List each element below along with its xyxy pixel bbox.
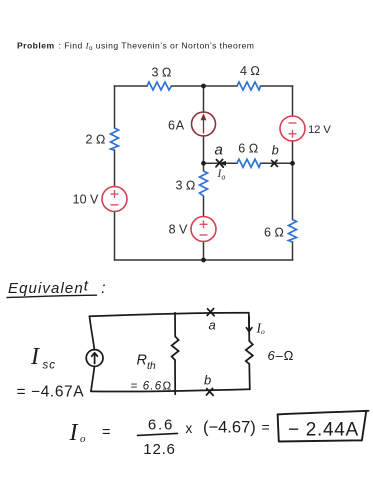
voltage source 10V plus [111, 190, 119, 205]
svg-text:2 Ω: 2 Ω [85, 133, 105, 147]
handwritten x mark at node a hand circuit [207, 309, 214, 316]
wire: bottom rail [115, 259, 293, 261]
wire: middle horizontal right of 6ohm [261, 162, 293, 164]
hand arrow Io on right branch [246, 317, 251, 332]
svg-text:8 V: 8 V [169, 223, 188, 237]
junction dot bottom middle node [201, 258, 206, 263]
voltage source 10V minus [111, 204, 119, 206]
wire: middle horizontal left of 6ohm [204, 162, 238, 164]
wire: hand circuit left branch lower [91, 366, 94, 391]
wire: middle branch between 6A and node a [203, 136, 205, 171]
svg-text:− 2.44A: − 2.44A [288, 420, 359, 441]
voltage source 12V plus [289, 133, 297, 135]
wire: top-middle segment [172, 85, 238, 87]
junction dot node a [201, 161, 206, 166]
voltage source 8V minus [200, 234, 208, 236]
svg-text:= 6.6Ω: = 6.6Ω [131, 381, 173, 393]
voltage source 12V minus [289, 123, 297, 138]
svg-text:a: a [209, 318, 216, 333]
hand resistor Rth zigzag [172, 337, 179, 361]
svg-text:=: = [102, 425, 110, 441]
wire: hand circuit middle branch lower [174, 360, 176, 394]
wire: hand circuit right branch lower [248, 364, 251, 389]
wire: middle branch between 3ohm and 8V [203, 196, 205, 217]
voltage source 12V circle [280, 116, 305, 141]
wire: top-right segment [261, 85, 293, 87]
wire: hand circuit middle branch upper [174, 313, 176, 337]
svg-text:12.6: 12.6 [143, 441, 175, 458]
current source 6A circle [192, 112, 216, 136]
resistor 6ohm middle horizontal zigzag [237, 159, 261, 167]
wire: top-left segment [115, 85, 148, 87]
svg-text:10 V: 10 V [73, 193, 99, 207]
svg-text:=: = [262, 419, 270, 435]
hand current source Isc arrow [92, 353, 98, 364]
wire: right branch 12V to node b [292, 141, 294, 220]
resistor 3ohm top-left zigzag [147, 82, 172, 90]
wire: left branch middle [114, 150, 116, 187]
svg-text:6–Ω: 6–Ω [268, 348, 295, 363]
wire: hand circuit bottom rail [91, 389, 250, 391]
svg-text:12 V: 12 V [308, 124, 331, 136]
svg-text:= −4.67A: = −4.67A [17, 384, 85, 401]
handwritten answer box [278, 411, 369, 442]
handwritten x mark at node a printed circuit [216, 159, 223, 167]
svg-text:b: b [204, 373, 211, 388]
svg-text:3 Ω: 3 Ω [175, 179, 195, 193]
wire: left branch upper [114, 86, 116, 128]
resistor 2ohm left zigzag [111, 128, 119, 151]
wire: hand circuit top rail [90, 313, 249, 317]
junction dot node b right [290, 161, 295, 166]
svg-text:6 Ω: 6 Ω [264, 225, 284, 239]
wire: hand circuit right branch upper [248, 313, 251, 341]
svg-text:6 Ω: 6 Ω [238, 142, 258, 156]
wire: right branch below 6ohm [292, 242, 294, 260]
svg-text:3 Ω: 3 Ω [151, 66, 171, 80]
resistor 4ohm top-right zigzag [237, 82, 261, 90]
svg-text:6.6: 6.6 [148, 417, 174, 434]
voltage source 8V plus [200, 220, 208, 235]
svg-text:4 Ω: 4 Ω [240, 64, 260, 78]
wire: middle branch below 8V [203, 242, 205, 261]
wire: hand circuit left branch upper [90, 316, 95, 350]
voltage source 10V circle [102, 187, 127, 212]
handwritten fraction bar [138, 433, 178, 435]
svg-text:b: b [272, 144, 279, 158]
svg-text:6A: 6A [168, 118, 185, 132]
wire: right branch above 12V [292, 86, 294, 116]
underline for Equivalent [7, 295, 97, 297]
wire: middle branch above 6A source [203, 86, 205, 112]
resistor 3ohm middle vertical zigzag [200, 171, 208, 196]
handwritten x mark at node b printed circuit [271, 160, 277, 166]
handwritten x mark at node b hand circuit [206, 388, 213, 395]
wire: left branch lower [114, 212, 116, 261]
svg-text:x: x [186, 421, 193, 436]
resistor 6ohm right vertical zigzag [289, 220, 297, 243]
hand current source Isc circle [86, 350, 103, 367]
svg-text:(−4.67): (−4.67) [203, 419, 256, 437]
voltage source 8V circle [191, 217, 216, 242]
junction dot top middle node [201, 84, 206, 89]
svg-text:a: a [215, 142, 223, 159]
hand resistor 6ohm zigzag [246, 341, 253, 364]
svg-text:Problem: Find Io using Theveni: Problem: Find Io using Thevenin’s or Nor… [17, 41, 254, 53]
current source 6A arrow [201, 113, 207, 133]
